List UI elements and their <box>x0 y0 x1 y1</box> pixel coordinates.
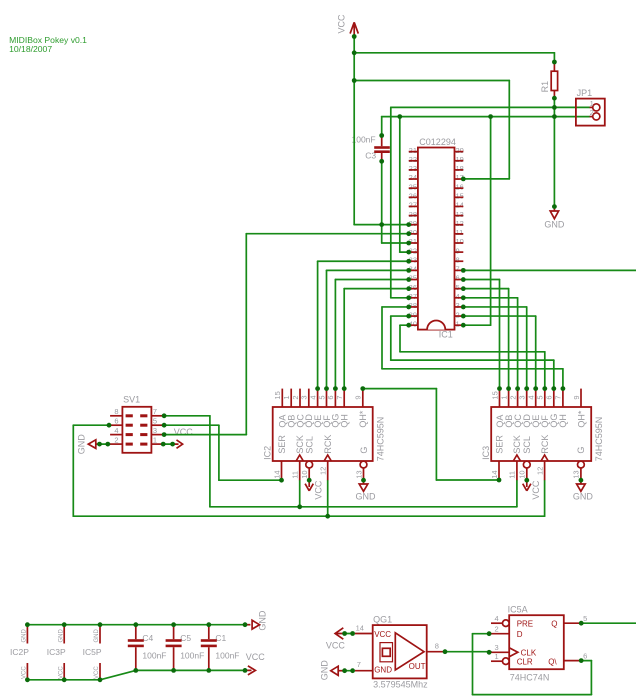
svg-text:6: 6 <box>456 274 460 283</box>
svg-text:VCC: VCC <box>531 480 541 500</box>
svg-text:7: 7 <box>554 395 563 399</box>
svg-text:13: 13 <box>354 470 363 478</box>
svg-text:15: 15 <box>456 191 464 200</box>
svg-text:14: 14 <box>490 470 499 478</box>
svg-text:10: 10 <box>300 470 309 478</box>
svg-text:4: 4 <box>308 395 317 399</box>
svg-text:GND: GND <box>77 434 87 455</box>
svg-text:15: 15 <box>490 391 499 399</box>
svg-text:5: 5 <box>317 395 326 399</box>
svg-text:11: 11 <box>291 471 300 479</box>
svg-text:19: 19 <box>456 155 464 164</box>
svg-text:IC3P: IC3P <box>47 647 66 657</box>
svg-text:IC3: IC3 <box>481 446 491 460</box>
svg-text:100nF: 100nF <box>215 651 239 661</box>
svg-text:3: 3 <box>495 643 499 652</box>
svg-text:5: 5 <box>456 283 460 292</box>
svg-text:16: 16 <box>456 182 464 191</box>
svg-text:14: 14 <box>356 624 364 633</box>
svg-text:2: 2 <box>590 108 594 117</box>
svg-text:21: 21 <box>409 146 417 155</box>
svg-text:1: 1 <box>499 395 508 399</box>
svg-text:13: 13 <box>572 470 581 478</box>
svg-text:SER: SER <box>277 435 287 454</box>
svg-text:18: 18 <box>456 164 464 173</box>
svg-text:G: G <box>359 447 369 454</box>
svg-text:3: 3 <box>518 395 527 399</box>
svg-text:SCK: SCK <box>295 435 305 454</box>
svg-text:74HC595N: 74HC595N <box>375 417 385 462</box>
svg-text:RCK: RCK <box>540 435 550 454</box>
svg-text:9: 9 <box>572 395 581 399</box>
svg-text:11: 11 <box>456 228 464 237</box>
svg-text:14: 14 <box>456 201 464 210</box>
svg-text:SCK: SCK <box>512 435 522 454</box>
svg-text:4: 4 <box>456 292 460 301</box>
svg-text:7: 7 <box>335 395 344 399</box>
svg-text:26: 26 <box>409 191 417 200</box>
svg-text:22: 22 <box>409 155 417 164</box>
svg-text:100nF: 100nF <box>142 651 166 661</box>
svg-text:14: 14 <box>272 470 281 478</box>
svg-text:GND: GND <box>573 491 594 501</box>
svg-text:1: 1 <box>495 652 499 661</box>
svg-text:6: 6 <box>545 395 554 399</box>
svg-text:5: 5 <box>536 395 545 399</box>
svg-text:6: 6 <box>583 652 587 661</box>
svg-text:CLK: CLK <box>521 648 537 657</box>
svg-text:6: 6 <box>114 416 118 425</box>
svg-text:7: 7 <box>456 265 460 274</box>
svg-text:10: 10 <box>456 237 464 246</box>
svg-text:2: 2 <box>114 435 118 444</box>
svg-text:SV1: SV1 <box>123 394 140 404</box>
svg-text:100nF: 100nF <box>352 134 376 144</box>
svg-text:PRE: PRE <box>517 619 533 628</box>
svg-text:R1: R1 <box>540 81 550 93</box>
svg-text:5: 5 <box>153 416 157 425</box>
svg-text:15: 15 <box>273 391 282 399</box>
svg-text:1: 1 <box>153 435 157 444</box>
svg-text:7: 7 <box>357 660 361 669</box>
svg-text:GND: GND <box>356 491 377 501</box>
svg-text:1: 1 <box>282 395 291 399</box>
svg-text:IC5P: IC5P <box>83 647 102 657</box>
svg-text:2: 2 <box>456 310 460 319</box>
svg-text:9: 9 <box>456 246 460 255</box>
svg-text:RCK: RCK <box>323 435 333 454</box>
svg-text:QH*: QH* <box>358 410 368 428</box>
svg-text:9: 9 <box>354 395 363 399</box>
svg-text:8: 8 <box>456 255 460 264</box>
svg-text:25: 25 <box>409 182 417 191</box>
svg-text:IC5A: IC5A <box>508 604 528 614</box>
svg-text:11: 11 <box>508 471 517 479</box>
svg-text:CLR: CLR <box>517 657 533 666</box>
svg-text:3: 3 <box>300 395 309 399</box>
svg-text:10/18/2007: 10/18/2007 <box>9 44 52 54</box>
svg-text:3: 3 <box>153 426 157 435</box>
svg-text:OUT: OUT <box>409 662 426 671</box>
svg-text:G: G <box>576 447 586 454</box>
svg-text:2: 2 <box>495 625 499 634</box>
svg-text:GND: GND <box>374 665 392 674</box>
svg-text:2: 2 <box>291 395 300 399</box>
svg-text:IC1: IC1 <box>439 330 453 340</box>
svg-text:74HC595N: 74HC595N <box>594 417 604 462</box>
svg-text:13: 13 <box>456 210 464 219</box>
svg-text:GND: GND <box>320 660 330 681</box>
svg-text:VCC: VCC <box>326 640 346 650</box>
svg-text:SCL: SCL <box>522 436 532 454</box>
svg-text:QH: QH <box>340 414 350 428</box>
svg-text:IC2: IC2 <box>263 446 273 460</box>
svg-text:VCC: VCC <box>337 14 347 34</box>
svg-text:10: 10 <box>518 470 527 478</box>
svg-text:3.579545Mhz: 3.579545Mhz <box>373 679 428 689</box>
svg-text:27: 27 <box>409 201 417 210</box>
svg-text:C5: C5 <box>180 633 191 643</box>
svg-text:24: 24 <box>409 173 417 182</box>
svg-text:1: 1 <box>590 99 594 108</box>
svg-text:20: 20 <box>456 146 464 155</box>
svg-text:7: 7 <box>153 407 157 416</box>
svg-text:C012294: C012294 <box>419 137 456 147</box>
svg-text:74HC74N: 74HC74N <box>510 672 550 682</box>
svg-text:C1: C1 <box>215 633 226 643</box>
svg-text:VCC: VCC <box>374 630 391 639</box>
svg-text:SCL: SCL <box>305 436 315 454</box>
svg-text:5: 5 <box>583 614 587 623</box>
svg-text:Q\: Q\ <box>548 657 557 666</box>
svg-text:QH: QH <box>558 414 568 428</box>
svg-text:23: 23 <box>409 164 417 173</box>
svg-text:4: 4 <box>527 395 536 399</box>
svg-text:2: 2 <box>508 395 517 399</box>
svg-text:C4: C4 <box>142 633 153 643</box>
svg-text:Q: Q <box>551 619 557 628</box>
svg-text:VCC: VCC <box>314 480 324 500</box>
svg-text:D: D <box>517 630 523 639</box>
svg-text:4: 4 <box>114 426 118 435</box>
svg-text:3: 3 <box>456 301 460 310</box>
svg-text:4: 4 <box>495 614 499 623</box>
svg-text:12: 12 <box>456 219 464 228</box>
svg-text:SER: SER <box>494 435 504 454</box>
svg-text:IC2P: IC2P <box>10 647 29 657</box>
svg-text:JP1: JP1 <box>577 88 593 98</box>
svg-text:100nF: 100nF <box>180 651 204 661</box>
svg-text:8: 8 <box>114 407 118 416</box>
svg-text:6: 6 <box>326 395 335 399</box>
svg-text:QG1: QG1 <box>373 614 392 624</box>
svg-text:GND: GND <box>258 610 268 631</box>
svg-text:1: 1 <box>456 319 460 328</box>
svg-text:12: 12 <box>319 467 328 475</box>
svg-text:8: 8 <box>435 641 439 650</box>
svg-text:28: 28 <box>409 210 417 219</box>
svg-text:12: 12 <box>535 467 544 475</box>
svg-text:QH*: QH* <box>576 410 586 428</box>
svg-text:GND: GND <box>544 220 565 230</box>
svg-text:VCC: VCC <box>246 652 266 662</box>
